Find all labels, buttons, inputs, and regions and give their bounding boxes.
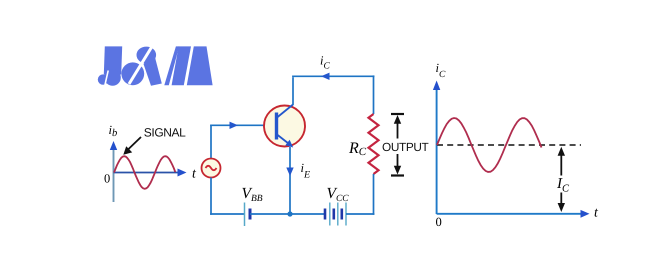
- resistor RC: [369, 114, 379, 174]
- node: right graph vertical axis (iC axis): [433, 81, 440, 215]
- dimension marker OUTPUT top bar and up arrow: [391, 114, 404, 139]
- svg-text:t: t: [192, 167, 197, 182]
- node: left graph horizontal axis (t axis): [114, 169, 187, 177]
- output current sine wave: [437, 118, 542, 172]
- wire: bottom rail VBB to emitter junction to VCC: [250, 213, 325, 215]
- svg-text:iE: iE: [301, 161, 311, 181]
- wire: emitter vertical: [289, 147, 291, 214]
- node: right graph horizontal axis (t axis): [437, 210, 590, 218]
- wire: collector vertical to top rail: [292, 77, 294, 105]
- svg-text:RC: RC: [348, 140, 367, 158]
- wire: right column top rail to resistor: [373, 75, 375, 114]
- node: left graph vertical axis (ib axis): [110, 141, 117, 202]
- svg-text:OUTPUT: OUTPUT: [382, 140, 429, 154]
- dimension marker IC down arrow: [558, 193, 565, 213]
- input signal sine wave: [114, 156, 175, 189]
- svg-text:SIGNAL: SIGNAL: [144, 126, 186, 140]
- wire: top rail: [292, 75, 374, 77]
- wire: bottom rail left segment to VBB: [210, 213, 244, 215]
- wire: source bottom to bottom rail: [210, 178, 212, 215]
- wire: resistor bottom to bottom rail: [373, 174, 375, 215]
- logo J&M: [98, 46, 213, 86]
- transistor Q1: [264, 105, 305, 148]
- wire: base horizontal wire to transistor: [210, 124, 275, 126]
- AC source: [202, 159, 221, 178]
- dashed quiescent level line: [437, 144, 581, 146]
- svg-text:iC: iC: [320, 54, 330, 72]
- svg-text:0: 0: [436, 215, 442, 229]
- svg-text:VBB: VBB: [242, 185, 263, 204]
- svg-text:iC: iC: [436, 61, 446, 80]
- svg-text:0: 0: [104, 172, 110, 186]
- arrow on emitter wire iE: [286, 168, 293, 177]
- wire: bottom rail VCC to resistor column: [346, 213, 374, 215]
- battery VCC: [325, 203, 346, 226]
- svg-text:ib: ib: [109, 123, 118, 139]
- wire: base loop left vertical (source to top corner): [210, 125, 212, 159]
- dimension marker IC up arrow: [558, 147, 565, 176]
- svg-text:t: t: [594, 206, 599, 221]
- junction: emitter node: [287, 211, 292, 216]
- arrow on top rail iC: [321, 73, 330, 80]
- battery VBB: [245, 203, 251, 227]
- svg-text:VCC: VCC: [327, 185, 350, 204]
- annotation arrow SIGNAL: [123, 137, 141, 155]
- dimension marker OUTPUT bottom bar and down arrow: [391, 154, 404, 176]
- svg-text:IC: IC: [556, 176, 570, 194]
- arrow on base wire: [230, 122, 239, 129]
